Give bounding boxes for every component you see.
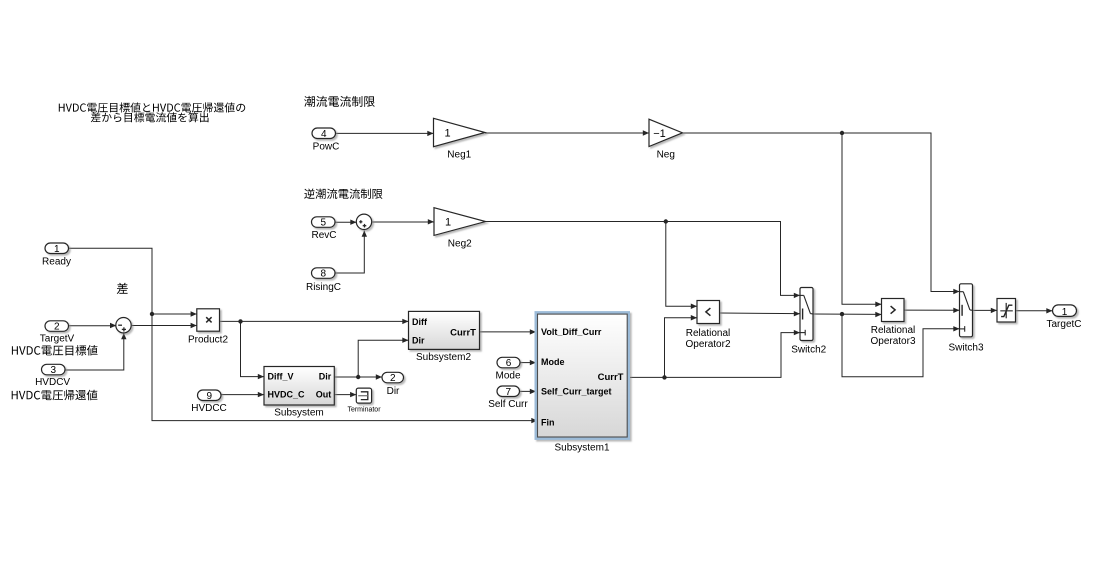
svg-text:Dir: Dir bbox=[319, 371, 332, 381]
svg-text:4: 4 bbox=[321, 129, 327, 140]
svg-text:CurrT: CurrT bbox=[450, 328, 476, 339]
svg-text:Relational: Relational bbox=[871, 325, 915, 336]
svg-text:TargetC: TargetC bbox=[1046, 319, 1081, 330]
svg-text:7: 7 bbox=[505, 387, 511, 398]
svg-text:Product2: Product2 bbox=[188, 335, 228, 346]
svg-text:Terminator: Terminator bbox=[347, 406, 381, 413]
svg-text:−1: −1 bbox=[653, 128, 666, 140]
svg-text:RevC: RevC bbox=[311, 230, 336, 241]
svg-text:RisingC: RisingC bbox=[306, 282, 341, 293]
svg-text:Dir: Dir bbox=[387, 386, 400, 397]
svg-text:Mode: Mode bbox=[495, 371, 520, 382]
svg-text:Operator3: Operator3 bbox=[870, 336, 915, 347]
svg-text:Operator2: Operator2 bbox=[685, 339, 730, 350]
svg-text:9: 9 bbox=[206, 391, 212, 402]
svg-text:Ready: Ready bbox=[42, 256, 71, 267]
svg-text:CurrT: CurrT bbox=[598, 372, 624, 383]
svg-text:Self_Curr_target: Self_Curr_target bbox=[541, 387, 612, 397]
svg-text:5: 5 bbox=[320, 218, 326, 229]
svg-text:Diff_V: Diff_V bbox=[268, 371, 294, 381]
svg-text:Switch2: Switch2 bbox=[791, 344, 826, 355]
svg-text:Neg1: Neg1 bbox=[447, 150, 471, 161]
svg-text:1: 1 bbox=[54, 244, 60, 255]
svg-text:Fin: Fin bbox=[541, 417, 555, 427]
svg-text:1: 1 bbox=[444, 127, 450, 139]
svg-text:Mode: Mode bbox=[541, 357, 565, 367]
svg-text:3: 3 bbox=[50, 365, 56, 376]
svg-text:Subsystem2: Subsystem2 bbox=[416, 352, 471, 363]
svg-text:HVDC_C: HVDC_C bbox=[268, 389, 306, 399]
svg-text:Out: Out bbox=[316, 389, 332, 399]
svg-text:Neg: Neg bbox=[657, 150, 675, 161]
svg-text:Neg2: Neg2 bbox=[448, 238, 472, 249]
svg-text:Subsystem: Subsystem bbox=[274, 407, 323, 418]
svg-text:1: 1 bbox=[1062, 307, 1068, 318]
svg-text:Volt_Diff_Curr: Volt_Diff_Curr bbox=[541, 327, 602, 337]
svg-text:2: 2 bbox=[390, 373, 396, 384]
svg-text:6: 6 bbox=[506, 358, 512, 369]
svg-text:Relational: Relational bbox=[686, 328, 730, 339]
svg-text:Dir: Dir bbox=[412, 335, 425, 345]
svg-text:1: 1 bbox=[445, 216, 451, 228]
svg-text:Diff: Diff bbox=[412, 317, 428, 327]
svg-text:2: 2 bbox=[54, 322, 60, 333]
svg-text:TargetV: TargetV bbox=[40, 333, 75, 344]
svg-text:Subsystem1: Subsystem1 bbox=[554, 443, 609, 454]
svg-text:Switch3: Switch3 bbox=[948, 343, 983, 354]
svg-text:Self Curr: Self Curr bbox=[488, 399, 528, 410]
svg-text:8: 8 bbox=[320, 269, 326, 280]
svg-text:HVDCC: HVDCC bbox=[191, 403, 227, 414]
svg-text:HVDCV: HVDCV bbox=[35, 377, 70, 388]
svg-text:PowC: PowC bbox=[313, 141, 340, 152]
